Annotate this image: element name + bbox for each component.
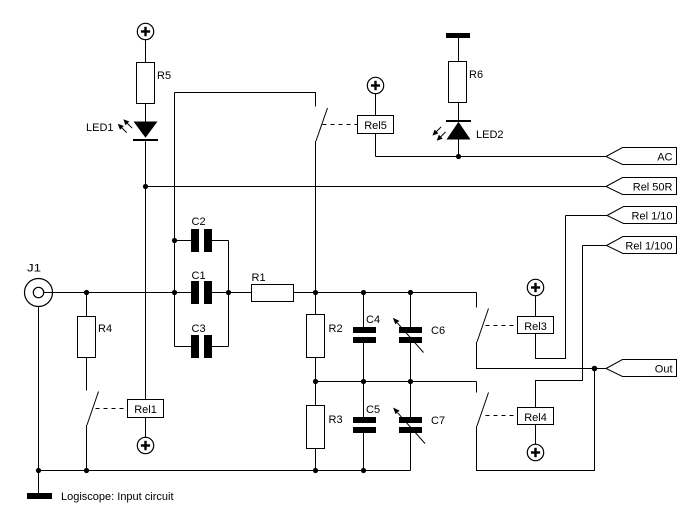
junction C4 top: [361, 290, 366, 295]
svg-text:AC: AC: [657, 152, 672, 164]
relay coil Rel5: [358, 116, 394, 134]
variable capacitor C6: [399, 327, 422, 343]
wire bar to R6: [458, 38, 460, 62]
junction C2 left: [172, 238, 177, 243]
wire S1 to ground rail: [86, 425, 88, 471]
svg-text:R5: R5: [157, 70, 171, 82]
wire net Rel 1/100: [583, 245, 607, 247]
junction C-bus left on main net: [172, 290, 177, 295]
junction node Rel 50R tap: [143, 184, 148, 189]
junction node B R2-R3: [313, 379, 318, 384]
wire node B to switch S4: [476, 382, 478, 393]
resistor R5: [137, 63, 155, 104]
wire C3 right lead: [212, 346, 229, 348]
svg-text:Logiscope: Input circuit: Logiscope: Input circuit: [61, 491, 174, 503]
wire Rel1 to power: [145, 418, 147, 438]
connector J1: [25, 279, 53, 307]
junction ground at S1: [84, 468, 89, 473]
svg-text:Rel1: Rel1: [134, 404, 157, 416]
LED2 light arrow 2: [437, 132, 446, 141]
wire net Rel 1/10: [566, 215, 608, 217]
capacitor C5: [353, 417, 376, 433]
wire C5 top lead: [363, 382, 365, 418]
svg-text:C2: C2: [192, 216, 206, 228]
dashed link S1 to Rel1: [96, 408, 128, 410]
svg-text:Out: Out: [655, 364, 673, 376]
resistor R6: [449, 62, 467, 103]
power +V symbol below Rel4: [527, 444, 543, 460]
LED1 light arrow 2: [118, 124, 127, 133]
capacitor C4: [353, 327, 376, 343]
svg-text:Rel 1/10: Rel 1/10: [632, 211, 673, 223]
wire R1 to node A: [294, 292, 477, 294]
power +V symbol above Rel5: [367, 77, 383, 93]
wire C1 right to R1: [212, 292, 252, 294]
svg-text:Rel5: Rel5: [364, 120, 387, 132]
wire C4 top lead: [363, 293, 365, 328]
ground bar: [27, 493, 52, 499]
wire C6 top lead: [410, 293, 412, 328]
junction C-bus right on main net: [226, 290, 231, 295]
wire power to Rel3: [535, 296, 537, 317]
svg-text:Rel 50R: Rel 50R: [633, 182, 673, 194]
wire R4 to switch S1: [86, 358, 88, 391]
junction C4-C5: [361, 379, 366, 384]
junction ground at J1: [36, 468, 41, 473]
svg-text:R3: R3: [329, 414, 343, 426]
svg-text:C5: C5: [366, 404, 380, 416]
wire C2 right lead: [212, 240, 229, 242]
svg-text:Rel 1/100: Rel 1/100: [625, 241, 672, 253]
wire R4 top lead: [86, 293, 88, 317]
switch S3 blade: [477, 309, 489, 343]
wire S4 to Out node: [477, 369, 595, 471]
wire S3 to Out node: [477, 342, 595, 369]
power +V symbol above Rel3: [527, 279, 543, 295]
wire Rel4 to power: [535, 425, 537, 445]
capacitor bank left bus wire: [174, 93, 176, 347]
wire top link C-bank to switch S5: [175, 93, 316, 107]
switch S1 blade: [87, 392, 99, 426]
junction ground at C5: [361, 468, 366, 473]
flag Rel 50R: [606, 178, 677, 195]
relay coil Rel3: [518, 317, 554, 334]
wire LED2 to AC net: [458, 140, 460, 157]
C6 trimmer arrow: [393, 318, 424, 353]
wire R3 to ground rail: [315, 449, 317, 471]
resistor R3: [307, 406, 325, 449]
svg-text:J1: J1: [27, 263, 41, 275]
svg-text:R6: R6: [469, 69, 483, 81]
capacitor C3: [191, 335, 212, 358]
dashed link S4 to Rel4: [486, 415, 518, 417]
junction node A R1-R2-S5: [313, 290, 318, 295]
capacitor C1: [191, 281, 212, 304]
wire R2 top lead: [315, 293, 317, 315]
switch S4 blade: [477, 393, 489, 427]
LED D2 LED2: [446, 120, 471, 140]
capacitor bank right bus wire: [228, 241, 230, 347]
wire Rel5 to AC net: [375, 134, 377, 157]
wire C5 bottom lead: [363, 433, 365, 471]
svg-text:Rel4: Rel4: [524, 412, 547, 424]
wire C7 bottom lead to ground rail: [410, 433, 412, 471]
resistor R2: [307, 315, 325, 358]
relay coil Rel4: [518, 408, 554, 425]
wire C3 left lead: [175, 346, 192, 348]
flag AC: [606, 148, 677, 165]
wire R6 to LED2: [458, 103, 460, 122]
C7 trimmer arrow: [393, 408, 425, 444]
svg-text:C7: C7: [431, 415, 445, 427]
flag Out: [606, 360, 677, 377]
wire Rel3 to net Rel 1/10: [536, 216, 566, 359]
svg-text:C3: C3: [192, 323, 206, 335]
power +V symbol below Rel1: [137, 437, 153, 453]
ground rail wire: [39, 470, 411, 472]
switch S5 blade: [316, 108, 328, 141]
wire LED1 down to Rel1 coil: [145, 141, 147, 399]
flag Rel 1/100: [607, 237, 677, 254]
supply bar above R6: [446, 33, 470, 38]
variable capacitor C7: [399, 417, 422, 433]
svg-text:C6: C6: [431, 325, 445, 337]
flag Rel 1/10: [607, 207, 677, 224]
LED D1 LED1: [133, 122, 158, 142]
wire S5 to node R1-R2: [315, 141, 317, 293]
wire net AC: [376, 156, 607, 158]
wire node Out to flag: [595, 368, 607, 370]
wire C2 left lead: [175, 240, 192, 242]
svg-text:LED1: LED1: [86, 122, 114, 134]
wire R5 to LED1: [145, 104, 147, 122]
LED1 light arrow 1: [123, 119, 132, 128]
junction C6 top: [408, 290, 413, 295]
svg-text:R4: R4: [98, 323, 112, 335]
junction node Out: [592, 366, 598, 372]
wire node A to switch S3: [476, 293, 478, 308]
wire R2 to node B: [315, 358, 317, 406]
capacitor C2: [191, 229, 212, 252]
wire net node B row: [316, 381, 477, 383]
relay coil Rel1: [128, 400, 164, 418]
wire J1 pin to C1: [44, 292, 192, 294]
junction C6-C7: [408, 379, 413, 384]
wire C7 top lead: [410, 382, 412, 418]
svg-text:Rel3: Rel3: [524, 321, 547, 333]
svg-text:LED2: LED2: [476, 129, 504, 141]
resistor R4: [78, 317, 96, 358]
wire power to Rel5: [375, 94, 377, 116]
junction R4 top: [84, 290, 89, 295]
junction node AC at LED2: [456, 154, 461, 159]
junction ground at R3: [313, 468, 318, 473]
svg-text:R2: R2: [329, 323, 343, 335]
LED2 light arrow 1: [432, 127, 441, 136]
svg-text:C4: C4: [366, 314, 380, 326]
wire C4 bottom lead: [363, 343, 365, 382]
resistor R1: [252, 285, 294, 302]
dashed link S3 to Rel3: [486, 325, 518, 327]
wire C6 bottom lead: [410, 343, 412, 382]
wire J1 shell to ground: [38, 307, 40, 494]
power +V symbol above R5: [137, 23, 153, 39]
svg-text:C1: C1: [192, 270, 206, 282]
wire Rel4 to net Rel 1/100: [536, 246, 583, 408]
wire net Rel 50R: [146, 186, 607, 188]
svg-text:R1: R1: [252, 272, 266, 284]
wire power to R5: [145, 40, 147, 63]
dashed link Rel5 to switch: [323, 124, 358, 126]
